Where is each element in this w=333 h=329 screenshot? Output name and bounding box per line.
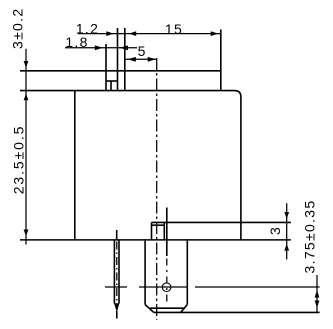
arrow dim2 pointing right [95, 45, 103, 50]
arrow 3r bottom pointing up [284, 244, 289, 251]
slot line C [124, 28, 126, 91]
pin centerline [116, 242, 118, 303]
svg-text:1.8: 1.8 [65, 34, 88, 50]
flange right edge with extension up [220, 30, 222, 91]
dimension line 3.75 right [316, 275, 318, 313]
svg-text:15: 15 [165, 21, 183, 37]
arrow 23.5 bottom pointing down [24, 230, 29, 237]
left pin right edge [118, 239, 120, 303]
slot inner horizontal [106, 80, 118, 82]
svg-text:3.75±0.35: 3.75±0.35 [302, 200, 318, 274]
tab bottom edge 2 with right extension [154, 311, 320, 313]
tab centerline [166, 259, 168, 307]
svg-text:23.5±0.5: 23.5±0.5 [10, 125, 26, 195]
left pin needle [116, 311, 118, 319]
flange top edge [20, 70, 221, 72]
left pin tip [114, 304, 119, 312]
arrow 375 top pointing up [315, 290, 320, 297]
tab chamfer right [181, 305, 188, 313]
seam lower short line [152, 224, 165, 226]
inner terminal edge [166, 208, 168, 257]
arrow dim1 mid pointing left [129, 31, 136, 36]
tab chamfer left [145, 305, 154, 313]
arrow dim2 pointing left at C [120, 45, 128, 50]
tab hole [162, 283, 171, 292]
tab right edge [186, 239, 188, 304]
svg-text:3±0.2: 3±0.2 [9, 8, 25, 49]
arrow dim1 left pointing right [106, 31, 114, 36]
slot line B [117, 28, 119, 91]
seam line with right extension [152, 221, 291, 223]
dimension line 3 right [286, 203, 288, 259]
arrow 375 bottom pointing down [315, 301, 320, 308]
arrow dim3 pointing left [128, 57, 136, 62]
left pin stub inside body [116, 230, 118, 239]
seam box right vertical [163, 222, 165, 239]
body bottom edge with extensions [20, 239, 291, 241]
horizontal centerline through pin and hole [105, 286, 320, 288]
arrow 3r top pointing down [284, 212, 289, 219]
slot line A [105, 44, 107, 91]
left pin left edge [113, 239, 115, 303]
body left edge [74, 91, 76, 240]
flange bottom / body top edge with rounded right corner [20, 91, 241, 240]
arrow shared pointing up [24, 94, 29, 101]
arrow 3pm top pointing down [24, 61, 29, 68]
dimension line 1.2 / 15 [78, 33, 221, 35]
svg-text:3: 3 [267, 226, 283, 235]
arrow dim3 pointing right [148, 57, 156, 62]
dimension line 5 [125, 58, 157, 60]
arrow dim1 right pointing right [211, 31, 219, 36]
svg-text:5: 5 [138, 43, 147, 59]
tab bottom edge 1 [149, 307, 185, 309]
dimension line 1.8 [65, 47, 137, 49]
slot inner vertical [110, 81, 112, 91]
seam box left vertical [151, 222, 153, 239]
left dimension line vertical [25, 49, 27, 245]
tab left edge [144, 239, 146, 304]
main centerline [156, 58, 158, 320]
